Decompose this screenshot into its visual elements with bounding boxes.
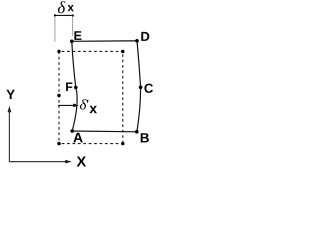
label delta of top dimension [58,1,66,13]
original undeformed body: dashed rectangle, left edge [58,51,60,143]
original undeformed body: dashed rectangle, right edge [122,52,124,144]
label Y of y-axis [6,90,14,99]
node: dashed corner top-right (original D) [121,50,124,53]
node E [70,40,74,44]
extension line right (gray) [72,17,74,36]
node B [135,130,139,134]
label x of top dimension [68,5,74,11]
label prime of delta-prime-x [87,100,89,103]
node A [70,129,74,133]
node D [135,39,139,43]
dimension end marker left [54,14,56,16]
delta-prime-x displacement arrow at level of F [58,104,74,106]
label x of delta-prime-x [89,106,97,113]
node C [139,86,143,90]
node: dashed corner top-left (original E) [57,50,60,53]
dimension line for delta-x displacement [55,14,73,16]
original undeformed body: dashed rectangle, bottom edge [59,143,123,145]
label delta of delta-prime-x [80,99,87,109]
X axis arrowhead [65,160,72,164]
label D [141,32,149,41]
node: original position of F on dashed left edge [57,94,60,97]
dimension end marker right [72,15,74,17]
label F [66,83,72,91]
node: dashed corner bottom-right (original B) [121,142,124,145]
deformed body outline through E-D-C-B-A-F [72,41,141,132]
label X of x-axis [77,156,86,166]
label E [74,31,81,40]
arrowhead of delta-prime-x arrow [73,104,78,108]
Y axis arrowhead [8,106,12,112]
coordinate axes [9,109,66,162]
node F [74,86,78,90]
original undeformed body: dashed rectangle, top edge [59,50,123,52]
node: dashed corner bottom-left (original A) [57,142,60,145]
label B [141,133,149,142]
label C [144,84,153,93]
extension line left (gray) [54,16,56,41]
label A [73,133,82,143]
